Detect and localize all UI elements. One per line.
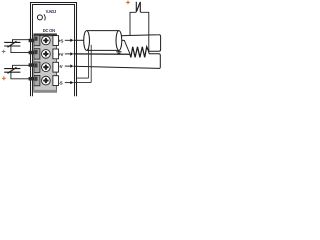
terminal row 2 (+V): left nub: [29, 51, 34, 55]
shielded cable right end ellipse: [116, 31, 122, 51]
capacitor C3 plus mark: [126, 1, 130, 5]
terminal row 1 screw: [42, 36, 51, 45]
wire -V to load (right loop): [74, 51, 161, 68]
terminal row 2 left clamp cell: [34, 49, 40, 59]
terminal row 4 left clamp cell: [34, 75, 40, 85]
terminal row 1 left clamp cell: [34, 35, 40, 45]
capacitor C1 plate 2: [4, 45, 20, 47]
capacitor C1 plus mark: [2, 50, 6, 54]
terminal row 4 right cell: [53, 76, 59, 86]
terminal row 3 (-V): left nub: [29, 63, 34, 67]
capacitor C3 left lead: [130, 12, 136, 35]
capacitor C2 polarity slash: [8, 67, 17, 73]
potentiometer rotation arc: [44, 14, 45, 20]
capacitor C3 right lead: [140, 12, 149, 51]
capacitor C2 lead to -S terminal: [11, 72, 31, 79]
shielded cable body bottom: [87, 49, 119, 51]
resistor R1 (load): [130, 47, 149, 58]
arrow for -V: [65, 65, 71, 67]
terminal row 2 right cell: [53, 49, 59, 59]
wire sense pair into cable: [77, 44, 89, 78]
terminal block TB1 body: [34, 34, 57, 92]
sense wire from cable right end to load: [122, 40, 131, 54]
terminal block bottom strip: [34, 90, 57, 92]
power supply unit U1 outer case border: [31, 3, 77, 97]
terminal row 2 screw: [42, 50, 51, 59]
svg-text:-S: -S: [58, 81, 62, 86]
capacitor C2 lead to -V terminal: [13, 65, 32, 68]
capacitor C3 plate 2: [139, 2, 141, 12]
shielded cable body top: [87, 30, 119, 32]
shielded cable left end ellipse: [84, 31, 90, 51]
arrow for +S: [65, 39, 71, 41]
capacitor C2 plus mark: [2, 76, 6, 80]
potentiometer V.ADJ knob: [37, 15, 42, 20]
terminal row 4 screw: [42, 76, 51, 85]
svg-text:+S: +S: [58, 38, 63, 43]
power supply unit U1 inner case border: [33, 5, 75, 97]
capacitor C2 plate 1: [4, 68, 20, 70]
shield ground symbol: [116, 50, 121, 53]
capacitor C1 lead to +S terminal: [13, 40, 32, 43]
capacitor C2 plate 2: [4, 71, 20, 73]
capacitor C1 polarity slash: [8, 41, 17, 47]
terminal block top strip: [34, 34, 57, 37]
wire -S sense into cable: [74, 45, 92, 83]
terminal row 3 screw: [42, 63, 51, 72]
svg-text:DC ON: DC ON: [43, 28, 55, 33]
terminal row 3 right cell: [53, 62, 59, 72]
wire +V to load: [74, 53, 131, 55]
capacitor C3 plate 1: [135, 2, 137, 12]
arrow for -S: [65, 82, 71, 84]
terminal row 1 right cell: [53, 36, 59, 46]
capacitor C1 plate 1: [4, 41, 20, 43]
capacitor C3 polarity slash: [137, 3, 140, 12]
wire +S to cable: [74, 39, 85, 41]
terminal row 4 (-S): left nub: [29, 77, 34, 81]
svg-text:V.ADJ: V.ADJ: [46, 9, 56, 14]
arrow for +V: [65, 53, 71, 55]
terminal row 1 (+S): left nub: [29, 39, 34, 43]
capacitor C1 lead to +V terminal: [11, 46, 31, 53]
terminal row 3 left clamp cell: [34, 62, 40, 72]
sense wire from cable top to load (upper right loop): [121, 35, 160, 51]
